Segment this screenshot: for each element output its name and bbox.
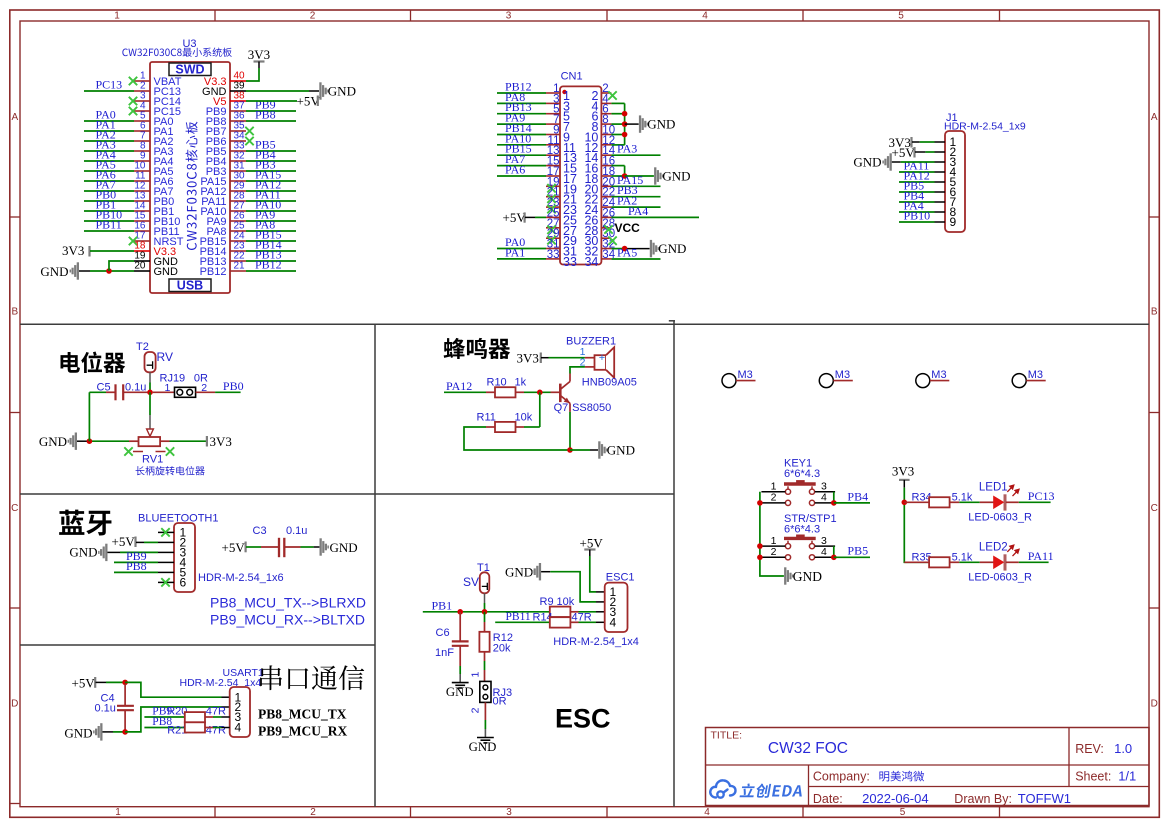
CN1 pin 1 stub (546, 92, 560, 94)
svg-text:+5V: +5V (112, 534, 136, 549)
wire net PA11 from U3 pin 28 (246, 200, 296, 202)
no-connect X on U3 pin 4 (129, 107, 137, 115)
svg-text:20: 20 (134, 261, 146, 272)
power flag 3V3 at RV1 (206, 436, 208, 447)
wire RV1 to 3V3 (170, 440, 207, 442)
svg-text:B: B (1151, 307, 1158, 318)
wire net PA6 to CN1 pin 17 (497, 175, 546, 177)
CN1 pin 22 stub (601, 196, 611, 198)
U3 pin 30 PA15 (230, 180, 246, 182)
earth ground symbol at RJ3 (477, 738, 494, 743)
svg-text:PB8_MCU_TX-->BLRXD: PB8_MCU_TX-->BLRXD (210, 595, 366, 611)
svg-text:3V3: 3V3 (62, 243, 84, 258)
svg-text:GND: GND (647, 117, 675, 132)
ground symbol at U3 pin 39 (319, 82, 328, 99)
svg-text:5: 5 (898, 11, 904, 22)
svg-text:C3: C3 (253, 525, 267, 537)
title block outline (706, 728, 1150, 806)
svg-text:4: 4 (821, 546, 827, 558)
section title 蜂鸣器 (444, 338, 511, 359)
wire net PA3 from CN1 pin 14 (611, 154, 660, 156)
svg-text:+: + (599, 352, 605, 364)
resistor R14 (550, 617, 571, 627)
no-connect X on CN1 pin 29 (547, 236, 555, 244)
wire net PA12 to J1 pin 5 (899, 181, 935, 183)
svg-text:3V3: 3V3 (248, 47, 270, 62)
svg-text:47R: 47R (206, 706, 226, 718)
svg-text:PB8: PB8 (126, 559, 147, 573)
wire 3V3 to buzzer pin 1 (541, 357, 549, 359)
junction at Q7 base node (537, 390, 543, 396)
title block row line 1 (706, 764, 1150, 766)
frame row ticks right (1149, 216, 1159, 218)
CN1 pin 7 stub (546, 123, 560, 125)
svg-text:+5V: +5V (580, 536, 604, 551)
wire KEY1 pins 3-4 tied (833, 492, 835, 503)
svg-text:1: 1 (771, 481, 777, 493)
svg-text:PA3: PA3 (617, 142, 637, 156)
J1 pin 5 (935, 181, 946, 183)
BLUEETOOTH1 pin 2 (158, 541, 174, 543)
svg-text:PB11: PB11 (96, 218, 122, 232)
svg-text:47R: 47R (206, 724, 226, 736)
svg-text:GND: GND (154, 266, 179, 278)
J1 pin 3 (935, 161, 946, 163)
wire net PA1 to U3 pin 6 (84, 130, 134, 132)
svg-text:3V3: 3V3 (517, 351, 539, 366)
CN1 pin 26 stub (601, 216, 611, 218)
junction at R12 node (482, 609, 488, 615)
svg-text:LED-0603_R: LED-0603_R (968, 572, 1032, 584)
J1 pin 4 (935, 171, 946, 173)
wire net PB14 from U3 pin 23 (246, 250, 296, 252)
no-connect X on U3 pin 35 (245, 127, 253, 135)
U3 pin 34 PB6 (230, 140, 246, 142)
section title 串口通信 (260, 665, 364, 690)
U3 pin 24 PB15 (230, 240, 246, 242)
wire 3V3 to J1 pin 1 (912, 141, 920, 143)
no-connect X on RV1 right stub (166, 447, 174, 455)
svg-text:D: D (11, 699, 18, 710)
svg-text:PB10: PB10 (904, 209, 931, 223)
wire net PB0 to U3 pin 13 (84, 200, 134, 202)
potentiometer RV1 body (139, 437, 161, 446)
junction key rail STR pin1 (757, 543, 763, 549)
svg-text:GND: GND (328, 84, 356, 99)
svg-text:PB5: PB5 (847, 544, 868, 558)
no-connect X on BLUEETOOTH1 pin 1 (161, 528, 169, 536)
wire R20 to USART1 pin 3 (205, 716, 213, 718)
svg-text:RV: RV (157, 350, 173, 364)
wire net PB9 to BLUEETOOTH1 pin 4 (114, 561, 158, 563)
svg-text:GND: GND (446, 685, 474, 699)
junction at C6 node (457, 609, 463, 615)
svg-text:Sheet:: Sheet: (1075, 770, 1111, 784)
U3 pin 33 PB5 (230, 150, 246, 152)
wire R11 to emitter GND rail (464, 427, 570, 450)
CN1 pin 8 stub (601, 123, 611, 125)
RV1 right lead (160, 440, 169, 442)
J1 pin 7 (935, 201, 946, 203)
CN1 pin 4 stub (601, 102, 611, 104)
svg-text:5: 5 (900, 807, 906, 818)
CN1 pin 34 stub (601, 258, 611, 260)
U3 pin 12 PA7 (134, 190, 150, 192)
junction at RV1 GND wire (87, 438, 93, 444)
svg-text:2: 2 (771, 492, 777, 504)
wire net PA7 to U3 pin 12 (84, 190, 134, 192)
wire net PA12 to R10 (444, 391, 486, 393)
wire +5V to CN1 pin 25 (525, 216, 535, 218)
wire R34 to LED1 (959, 501, 979, 503)
svg-text:C: C (11, 503, 18, 514)
LED LED2 emission arrows (1007, 545, 1019, 556)
KEY1 pin 4 (815, 502, 835, 504)
resistor R35 (929, 557, 950, 567)
potentiometer RV1 wiper arrow (147, 429, 154, 436)
svg-text:4: 4 (702, 11, 708, 22)
svg-text:TITLE:: TITLE: (711, 730, 743, 742)
wire key left rail to GND (760, 492, 784, 576)
U3 pin 2 PC13 (134, 90, 150, 92)
svg-text:PB12: PB12 (255, 258, 282, 272)
svg-text:10k: 10k (515, 411, 533, 423)
LED LED2 (980, 561, 994, 563)
svg-text:1/1: 1/1 (1118, 769, 1136, 784)
wire R9 to ESC1 pin 3 (570, 611, 578, 613)
wire U3 pin 38 to +5V (246, 100, 297, 102)
svg-text:D: D (1151, 699, 1158, 710)
svg-text:2022-06-04: 2022-06-04 (862, 791, 929, 806)
wire net PC13 from LED1 (1019, 501, 1051, 503)
svg-text:9: 9 (950, 215, 957, 229)
U3 pin 40 V3.3 (230, 80, 246, 82)
ground symbol at CN1 pin 32 (650, 240, 659, 257)
svg-text:4: 4 (610, 616, 617, 630)
no-connect X on CN1 pin 30 (608, 237, 616, 245)
svg-text:4: 4 (821, 492, 827, 504)
BLUEETOOTH1 pin 5 (158, 571, 174, 573)
svg-text:GND: GND (469, 740, 497, 754)
wire +5V to ESC1 pin 1 (590, 556, 596, 592)
CN1 pin 29 stub (546, 237, 560, 239)
svg-text:GND: GND (39, 434, 67, 449)
jumper RJ3 body (480, 681, 491, 702)
CN1 pin 17 stub (546, 175, 560, 177)
svg-text:GND: GND (662, 169, 690, 184)
CN1 pin 33 stub (546, 258, 560, 260)
wire R21 to USART1 pin 4 (205, 727, 213, 729)
connector ESC1 body (605, 583, 628, 632)
ground symbol at keys (784, 567, 793, 584)
wire net PB5 to J1 pin 6 (899, 191, 935, 193)
wire buzzer pin 2 to Q7 collector (585, 366, 595, 368)
J1 pin 1 (935, 141, 946, 143)
svg-text:21: 21 (234, 261, 246, 272)
wire net PB4 from KEY1 (834, 502, 870, 504)
CN1 pin 3 stub (546, 102, 560, 104)
svg-text:PC13: PC13 (96, 78, 123, 92)
connector USART1 body (230, 687, 250, 737)
svg-text:3: 3 (821, 481, 827, 493)
wire C3 to GND (301, 546, 314, 548)
CN1 pin 28 stub (601, 227, 611, 229)
U3 pin 3 PC14 (134, 100, 150, 102)
wire net PB15 to CN1 pin 13 (497, 154, 546, 156)
resistor R9 (550, 607, 571, 617)
U3 pin 7 PA2 (134, 140, 150, 142)
wire R10 to Q7 base (524, 391, 551, 393)
junction CN1 bus pin10 (622, 132, 628, 138)
svg-text:SS8050: SS8050 (572, 402, 611, 414)
CN1 pin 24 stub (601, 206, 611, 208)
BLUEETOOTH1 pin 4 (158, 561, 174, 563)
svg-text:PB9_MCU_RX: PB9_MCU_RX (258, 724, 347, 739)
wire net PB3 from U3 pin 31 (246, 170, 296, 172)
wire 3V3 to resistor R35 (904, 561, 929, 563)
svg-text:GND: GND (64, 725, 92, 740)
U3 pin 5 PA0 (134, 120, 150, 122)
mounting hole M3 #1 (722, 374, 736, 388)
svg-text:RV1: RV1 (142, 454, 163, 466)
title block company value (879, 771, 924, 782)
wire CN1 pins 16-18 to GND (611, 165, 624, 167)
svg-text:HDR-M-2.54_1x4: HDR-M-2.54_1x4 (553, 636, 639, 648)
svg-text:PA11: PA11 (1028, 549, 1054, 563)
svg-text:Q7: Q7 (554, 402, 569, 414)
svg-text:PC13: PC13 (1028, 489, 1055, 503)
wire +5V to C3 (246, 546, 261, 548)
svg-text:A: A (11, 112, 18, 123)
junction at GND node (122, 729, 128, 735)
CN1 pin 25 stub (546, 216, 560, 218)
push button STR/STP1 symbol (784, 535, 816, 560)
svg-text:1: 1 (771, 535, 777, 547)
no-connect X on BLUEETOOTH1 pin 6 (161, 578, 169, 586)
wire net PB11 to R14 (495, 621, 550, 623)
no-connect X on U3 pin 1 (129, 77, 137, 85)
svg-text:3: 3 (821, 535, 827, 547)
wire net PA3 to U3 pin 8 (84, 150, 134, 152)
svg-text:Date:: Date: (813, 792, 843, 806)
wire net PB8 to BLUEETOOTH1 pin 5 (114, 571, 158, 573)
svg-text:1: 1 (115, 807, 121, 818)
no-connect X on CN1 pin 2 (608, 91, 616, 99)
wire net PB12 from U3 pin 21 (246, 270, 296, 272)
buzzer BUZZER1 speaker symbol (595, 355, 607, 370)
RV1 unused pin stub left (133, 451, 143, 453)
svg-text:C: C (1151, 503, 1158, 514)
wire net PB1 (423, 611, 550, 613)
wire 3V3 to U3 pin 40 (246, 68, 259, 81)
wire node to jumper RJ19 (153, 391, 175, 393)
frame column ticks bottom (214, 807, 216, 818)
mcu module U3 part name CW32F030C8 (122, 48, 231, 57)
wire net PA2 to U3 pin 7 (84, 140, 134, 142)
U3 pin 10 PA5 (134, 170, 150, 172)
svg-text:6: 6 (180, 576, 187, 590)
svg-text:USB: USB (177, 279, 203, 293)
U3 pin 35 PB7 (230, 130, 246, 132)
wire CN1 pins 4-12 ground bus (611, 102, 624, 104)
capacitor C4 (124, 684, 126, 705)
CN1 pin 1 marker dot (562, 90, 566, 94)
section divider vertical x=375 (374, 324, 376, 806)
U3 pin 21 PB12 (230, 270, 246, 272)
junction key rail KEY1 pin2 (757, 500, 763, 506)
junction at emitter GND rail (567, 447, 573, 453)
frame column ticks top (214, 10, 216, 21)
svg-text:PB9_MCU_RX-->BLTXD: PB9_MCU_RX-->BLTXD (210, 612, 365, 628)
capacitor C5 (106, 391, 116, 393)
U3 pin 29 PA12 (230, 190, 246, 192)
wire net PB9 from U3 pin 37 (246, 110, 296, 112)
wire net PA10 to CN1 pin 11 (497, 144, 546, 146)
svg-text:1.0: 1.0 (1114, 741, 1132, 756)
svg-text:4: 4 (704, 807, 710, 818)
wire 3V3 rail to LED rows (904, 488, 929, 563)
CN1 pin 27 stub (546, 227, 560, 229)
svg-text:GND: GND (658, 241, 686, 256)
wire GND branch to U3 pin 19 (109, 261, 134, 271)
no-connect X on U3 pin 3 (129, 97, 137, 105)
potentiometer RV1 description (136, 466, 205, 475)
CN1 pin 19 stub (546, 185, 560, 187)
svg-text:B: B (11, 307, 18, 318)
LED LED1 emission arrows (1007, 485, 1019, 496)
svg-text:+5V: +5V (72, 675, 96, 690)
wire +5V to node (96, 681, 107, 683)
U3 pin 37 PB9 (230, 110, 246, 112)
wire node to potentiometer wiper (149, 392, 151, 415)
CN1 pin 9 stub (546, 134, 560, 136)
wire net PB14 to CN1 pin 9 (497, 134, 546, 136)
svg-text:PA1: PA1 (505, 245, 525, 259)
wire net PA4 to J1 pin 8 (899, 211, 935, 213)
wire +5V node to USART1 pin 1 (125, 682, 221, 697)
connector CN1 body (560, 86, 601, 264)
wire STR/STP1 pins 3-4 tied (833, 546, 835, 557)
resistor R20 (185, 712, 205, 722)
svg-text:1: 1 (469, 672, 481, 678)
wire net PA5 from CN1 pin 34 (611, 258, 660, 260)
CN1 pin 18 stub (601, 175, 611, 177)
svg-text:1nF: 1nF (435, 647, 454, 659)
J1 pin 6 (935, 191, 946, 193)
title block column line logo (808, 765, 810, 806)
U3 pin 11 PA6 (134, 180, 150, 182)
wire net PA11 from LED2 (1019, 561, 1049, 563)
CN1 pin 12 stub (601, 144, 611, 146)
CN1 pin 6 stub (601, 113, 611, 115)
junction at U3 GND wire (106, 268, 112, 274)
resistor R34 (929, 497, 950, 507)
section divider horizontal y=494 (20, 493, 674, 495)
wire net PA9 from U3 pin 26 (246, 220, 296, 222)
svg-text:PB8: PB8 (255, 108, 276, 122)
CN1 pin 16 stub (601, 165, 611, 167)
junction STR/STP1 pin 4 (831, 555, 837, 561)
wire net PB10 to U3 pin 15 (84, 220, 134, 222)
svg-text:PA4: PA4 (628, 204, 648, 218)
svg-text:PA6: PA6 (505, 163, 525, 177)
svg-text:Drawn By:: Drawn By: (954, 792, 1012, 806)
svg-text:+5V: +5V (222, 540, 246, 555)
J1 pin 2 (935, 151, 946, 153)
wire net PA2 from CN1 pin 24 (611, 206, 660, 208)
U3 pin 28 PA11 (230, 200, 246, 202)
svg-text:CW32 FOC: CW32 FOC (768, 740, 848, 757)
mounting hole M3 #3 (916, 374, 930, 388)
RV1 left lead (129, 440, 139, 442)
EasyEDA logo cloud (710, 780, 735, 797)
svg-text:2: 2 (771, 546, 777, 558)
junction at +5V node (122, 680, 128, 686)
wire net PA0 to CN1 pin 31 (497, 248, 546, 250)
wire net PB5 from U3 pin 33 (246, 150, 296, 152)
wire net PB11 to U3 pin 16 (84, 230, 134, 232)
wire U3 pin 39 to GND (246, 90, 309, 92)
wire net PA11 to J1 pin 4 (899, 171, 935, 173)
svg-text:3V3: 3V3 (210, 434, 232, 449)
wire net PA0 to U3 pin 5 (84, 120, 134, 122)
svg-text:4: 4 (235, 721, 242, 735)
svg-text:HNB09A05: HNB09A05 (582, 377, 637, 389)
svg-text:GND: GND (853, 155, 881, 170)
wire T2 to node (149, 372, 151, 382)
CN1 pin 23 stub (546, 206, 560, 208)
U3 pin 8 PA3 (134, 150, 150, 152)
wire GND node to USART1 pin 2 (125, 707, 221, 732)
wire net PA6 to U3 pin 11 (84, 180, 134, 182)
no-connect X on CN1 pin 23 (547, 205, 555, 213)
svg-text:GND: GND (607, 443, 635, 458)
wire net PA15 from U3 pin 30 (246, 180, 296, 182)
svg-text:CN1: CN1 (561, 71, 583, 83)
wire net PA1 to CN1 pin 33 (497, 258, 546, 260)
frame row ticks left (10, 216, 20, 218)
svg-text:M3: M3 (835, 369, 850, 381)
STR/STP1 pin 3 (815, 545, 835, 547)
wire R12 to jumper RJ3 (484, 661, 486, 670)
svg-text:PB8_MCU_TX: PB8_MCU_TX (258, 707, 347, 722)
LED LED1 (980, 501, 994, 503)
svg-text:LED2: LED2 (979, 542, 1008, 554)
KEY1 pin 2 (761, 502, 785, 504)
junction CN1 pin18 (622, 173, 628, 179)
no-connect X on CN1 pin 28 (604, 225, 612, 233)
CN1 pin 10 stub (601, 134, 611, 136)
wire net PB3 from CN1 pin 22 (611, 196, 660, 198)
resistor R10 (486, 391, 495, 393)
wire net PA10 from U3 pin 27 (246, 210, 296, 212)
svg-text:1: 1 (114, 11, 120, 22)
resistor R21 (185, 722, 205, 732)
junction CN1 bus pin8 (622, 121, 628, 127)
svg-text:33: 33 (563, 255, 577, 269)
svg-text:PB12: PB12 (200, 266, 227, 278)
svg-text:PB1: PB1 (432, 598, 453, 612)
svg-text:20k: 20k (493, 643, 511, 655)
wire net PB4 from U3 pin 32 (246, 160, 296, 162)
wire GND to node (103, 731, 114, 733)
wire C6 to earth ground (459, 666, 461, 674)
wire 3V3 to resistor R34 (904, 501, 929, 503)
resistor R11 (516, 426, 525, 428)
CN1 pin 2 stub (601, 92, 611, 94)
BLUEETOOTH1 pin 6 (158, 581, 174, 583)
svg-text:LED-0603_R: LED-0603_R (968, 512, 1032, 524)
